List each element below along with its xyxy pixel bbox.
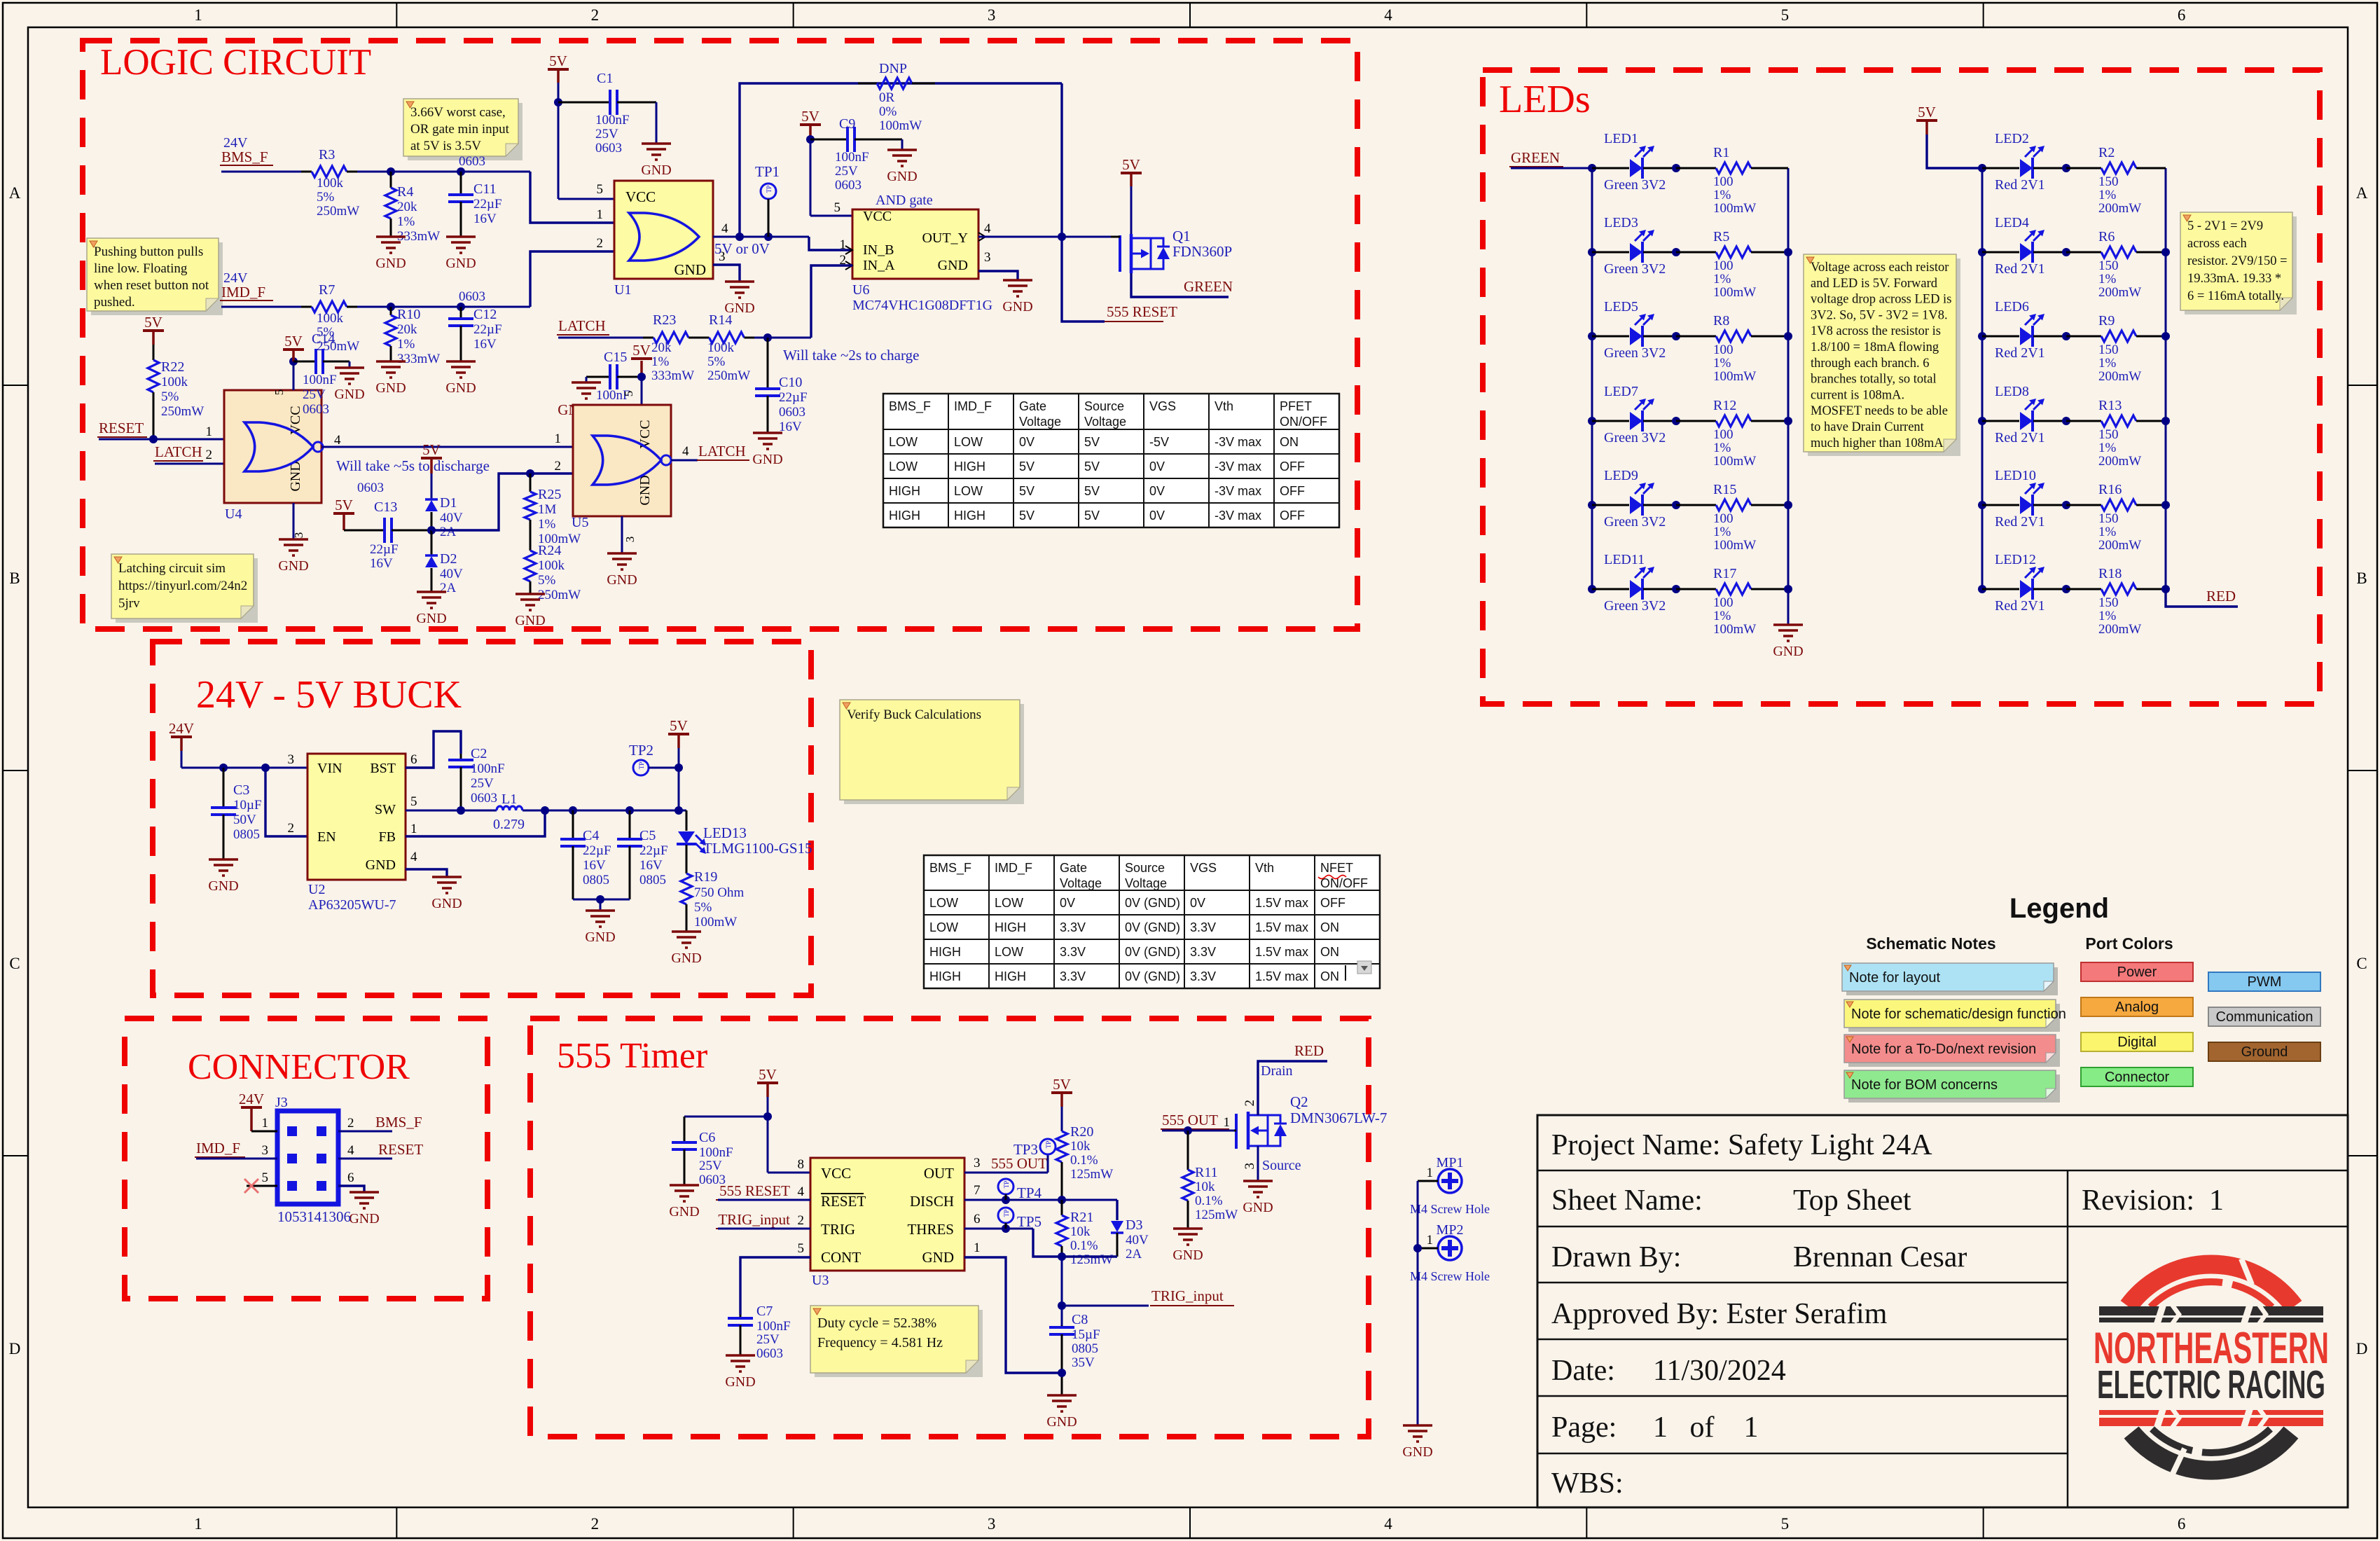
svg-text:333mW: 333mW xyxy=(651,368,694,383)
capacitor C10 xyxy=(767,338,769,389)
svg-text:https://tinyurl.com/24n2: https://tinyurl.com/24n2 xyxy=(118,579,247,593)
resistor R20 xyxy=(1061,1131,1063,1133)
svg-text:Voltage: Voltage xyxy=(1084,415,1126,429)
svg-text:10k: 10k xyxy=(1070,1224,1091,1239)
Northeastern Electric Racing logo xyxy=(2094,1259,2329,1474)
svg-text:AND gate: AND gate xyxy=(876,193,933,208)
svg-text:0603: 0603 xyxy=(303,402,329,417)
svg-text:4: 4 xyxy=(1384,1515,1392,1533)
svg-text:0603: 0603 xyxy=(459,154,485,169)
svg-text:R24: R24 xyxy=(538,543,561,558)
svg-text:5V: 5V xyxy=(759,1066,777,1083)
note sticky duty cycle xyxy=(815,1310,983,1377)
svg-text:200mW: 200mW xyxy=(2098,369,2141,384)
svg-text:100: 100 xyxy=(1713,595,1734,610)
svg-text:LOW: LOW xyxy=(954,435,983,449)
svg-text:24V: 24V xyxy=(169,720,194,737)
svg-text:25V: 25V xyxy=(756,1332,780,1347)
svg-text:125mW: 125mW xyxy=(1070,1167,1113,1182)
LED5 green xyxy=(1588,332,1596,340)
svg-text:0805: 0805 xyxy=(1072,1341,1098,1356)
svg-text:Will take ~2s to charge: Will take ~2s to charge xyxy=(783,347,919,364)
resistor R16 xyxy=(2066,504,2101,506)
wire U1 output xyxy=(713,236,809,238)
svg-text:25V: 25V xyxy=(699,1159,722,1173)
svg-text:16V: 16V xyxy=(473,337,497,352)
svg-text:Red 2V1: Red 2V1 xyxy=(1995,261,2045,277)
svg-text:CONT: CONT xyxy=(821,1249,861,1266)
svg-text:EN: EN xyxy=(317,829,336,845)
svg-text:20k: 20k xyxy=(397,200,417,214)
svg-text:HIGH: HIGH xyxy=(995,920,1026,934)
resistor R24 xyxy=(530,539,532,551)
svg-text:TP3: TP3 xyxy=(1013,1141,1038,1158)
resistor R9 xyxy=(2066,336,2101,338)
section box LEDs xyxy=(1483,70,2320,704)
svg-text:TP: TP xyxy=(1003,1181,1010,1189)
svg-text:Top Sheet: Top Sheet xyxy=(1793,1184,1911,1217)
svg-text:5V: 5V xyxy=(284,333,303,350)
wire IMD_F row xyxy=(221,306,301,308)
svg-text:Legend: Legend xyxy=(2009,893,2109,924)
svg-text:0603: 0603 xyxy=(756,1346,783,1361)
svg-text:5V: 5V xyxy=(1918,104,1936,120)
legend note bom xyxy=(1848,1074,2060,1103)
ground below U4 xyxy=(279,538,308,541)
svg-text:U5: U5 xyxy=(572,515,588,530)
svg-text:35V: 35V xyxy=(1072,1355,1095,1370)
svg-text:C15: C15 xyxy=(604,350,627,365)
LED8 red xyxy=(1978,417,1986,425)
svg-text:LED5: LED5 xyxy=(1604,299,1638,315)
svg-text:LATCH: LATCH xyxy=(698,443,746,459)
legend note todo xyxy=(1848,1039,2060,1067)
NOR gate symbol U4 xyxy=(244,422,313,471)
svg-text:50V: 50V xyxy=(233,813,256,827)
svg-text:100mW: 100mW xyxy=(1713,538,1756,553)
wire C4 C5 to GND xyxy=(573,899,630,901)
truth table PFET xyxy=(883,394,1339,527)
frame column ticks xyxy=(396,3,397,27)
svg-text:0603: 0603 xyxy=(459,289,485,304)
ground below C8 xyxy=(1047,1394,1077,1397)
svg-text:1%: 1% xyxy=(651,354,670,369)
diode D1 xyxy=(425,500,438,511)
svg-text:Power: Power xyxy=(2117,965,2157,980)
svg-text:125mW: 125mW xyxy=(1070,1252,1113,1267)
svg-text:ON/OFF: ON/OFF xyxy=(1320,876,1368,890)
wire C9 to GND xyxy=(901,139,904,150)
svg-text:4: 4 xyxy=(682,444,689,459)
svg-text:5V: 5V xyxy=(144,314,162,331)
svg-text:0V: 0V xyxy=(1149,459,1165,474)
title block divider xyxy=(2067,1170,2069,1507)
resistor R23 xyxy=(643,337,653,339)
svg-text:BMS_F: BMS_F xyxy=(221,148,268,165)
svg-text:GND: GND xyxy=(375,256,406,271)
resistor R11 xyxy=(1187,1131,1189,1170)
svg-text:ON: ON xyxy=(1320,969,1339,983)
body diode Q1 xyxy=(1157,246,1170,248)
ground below J3 pin6 xyxy=(350,1191,379,1194)
resistor R10 vertical xyxy=(390,307,392,315)
svg-text:200mW: 200mW xyxy=(2098,538,2141,553)
svg-text:25V: 25V xyxy=(835,164,858,179)
svg-text:25V: 25V xyxy=(471,776,494,791)
port color PWM xyxy=(2208,972,2320,991)
resistor R4 vertical xyxy=(390,172,392,188)
transistor Q2 DMN3067LW-7 NFET xyxy=(1235,1114,1238,1149)
svg-text:1: 1 xyxy=(262,1116,269,1131)
svg-text:IMD_F: IMD_F xyxy=(221,284,265,300)
svg-text:555 Timer: 555 Timer xyxy=(557,1036,707,1076)
resistor R19 xyxy=(686,872,688,873)
wire U5 pin3 GND xyxy=(621,516,623,553)
logo bottom arcs xyxy=(2131,1432,2291,1470)
svg-text:1%: 1% xyxy=(1713,188,1731,202)
svg-text:D: D xyxy=(2356,1340,2368,1357)
svg-text:LEDs: LEDs xyxy=(1499,78,1591,121)
svg-text:100mW: 100mW xyxy=(879,118,922,133)
svg-text:1%: 1% xyxy=(1713,356,1731,371)
capacitor C2 xyxy=(460,754,462,760)
svg-text:0V (GND): 0V (GND) xyxy=(1125,969,1180,983)
svg-text:1%: 1% xyxy=(397,214,415,229)
svg-text:4: 4 xyxy=(798,1184,805,1199)
svg-text:R10: R10 xyxy=(397,307,420,322)
svg-text:GND: GND xyxy=(416,611,446,626)
svg-text:6 = 116mA totally.: 6 = 116mA totally. xyxy=(2187,289,2284,303)
svg-text:LATCH: LATCH xyxy=(155,443,202,460)
note sticky 3.66V worst case xyxy=(408,103,523,160)
svg-text:TP: TP xyxy=(638,762,645,770)
svg-text:ELECTRIC RACING: ELECTRIC RACING xyxy=(2097,1363,2325,1408)
wire SW row xyxy=(406,810,497,812)
connector pin pad xyxy=(287,1154,297,1163)
svg-text:GND: GND xyxy=(1402,1444,1432,1460)
svg-text:100mW: 100mW xyxy=(694,915,737,930)
node D1/D2/C13 xyxy=(427,526,436,534)
svg-text:U1: U1 xyxy=(614,282,631,298)
LED7 green xyxy=(1588,417,1596,425)
svg-text:16V: 16V xyxy=(639,858,663,873)
svg-text:C7: C7 xyxy=(756,1304,773,1319)
wire C15 node to U5 VCC xyxy=(641,377,643,405)
svg-text:through each branch. 6: through each branch. 6 xyxy=(1811,357,1930,371)
svg-text:24V: 24V xyxy=(239,1091,264,1107)
test point TP4 xyxy=(998,1179,1013,1194)
svg-text:Green 3V2: Green 3V2 xyxy=(1604,430,1666,445)
svg-text:Green 3V2: Green 3V2 xyxy=(1604,598,1666,614)
legend note layout xyxy=(1846,967,2058,995)
svg-text:GND: GND xyxy=(887,169,917,184)
svg-text:100mW: 100mW xyxy=(1713,369,1756,384)
capacitor C3 xyxy=(223,768,225,808)
svg-text:Latching circuit sim: Latching circuit sim xyxy=(118,561,226,576)
resistor R5 xyxy=(1676,251,1716,254)
svg-text:5: 5 xyxy=(798,1241,805,1256)
wire U3 GND pin1 xyxy=(964,1257,1062,1373)
svg-text:U3: U3 xyxy=(812,1273,829,1288)
svg-text:R23: R23 xyxy=(653,312,676,328)
capacitor C5 xyxy=(629,810,631,839)
svg-text:Green 3V2: Green 3V2 xyxy=(1604,261,1666,277)
svg-text:100nF: 100nF xyxy=(471,761,505,776)
wire THRES pin6 xyxy=(964,1228,1033,1230)
logo black chevron band xyxy=(2099,1306,2323,1315)
svg-text:20k: 20k xyxy=(651,340,672,355)
capacitor C12 xyxy=(460,307,462,319)
wire C1 left xyxy=(558,102,601,104)
svg-text:22µF: 22µF xyxy=(583,843,611,858)
svg-text:Voltage: Voltage xyxy=(1125,876,1167,890)
svg-text:line low. Floating: line low. Floating xyxy=(94,261,188,276)
svg-text:GND: GND xyxy=(366,857,396,873)
text caret artifact xyxy=(1345,965,1346,981)
LED1 green xyxy=(1592,167,1629,170)
svg-text:Project Name: Safety Light 24A: Project Name: Safety Light 24A xyxy=(1551,1129,1932,1161)
ground below R10 xyxy=(376,360,406,363)
svg-text:FB: FB xyxy=(379,829,396,845)
svg-text:NFET: NFET xyxy=(1320,861,1353,875)
svg-text:1%: 1% xyxy=(2098,609,2117,623)
svg-text:3: 3 xyxy=(984,250,991,265)
svg-text:Source: Source xyxy=(1262,1158,1301,1173)
svg-text:C4: C4 xyxy=(583,828,599,843)
svg-text:IMD_F: IMD_F xyxy=(196,1140,240,1156)
wire DNP top bypass xyxy=(740,83,1062,237)
U6 input pin arrows xyxy=(845,246,852,254)
ground below U2 pin4 xyxy=(432,876,462,878)
ground right of C14 xyxy=(349,361,351,368)
svg-text:Drawn By:: Drawn By: xyxy=(1551,1241,1681,1273)
svg-text:LED6: LED6 xyxy=(1995,299,2029,315)
svg-text:0.279: 0.279 xyxy=(493,817,525,832)
svg-text:Voltage: Voltage xyxy=(1019,415,1061,429)
svg-text:C11: C11 xyxy=(473,181,497,197)
svg-text:1%: 1% xyxy=(2098,441,2117,455)
svg-text:Approved By: Ester Serafim: Approved By: Ester Serafim xyxy=(1551,1298,1888,1330)
svg-text:resistor. 2V9/150 =: resistor. 2V9/150 = xyxy=(2187,254,2288,268)
svg-text:R4: R4 xyxy=(397,184,413,200)
svg-text:C10: C10 xyxy=(779,375,802,390)
svg-text:Digital: Digital xyxy=(2117,1035,2157,1050)
svg-text:SW: SW xyxy=(375,802,396,817)
svg-text:0%: 0% xyxy=(879,104,897,119)
capacitor C7 xyxy=(740,1315,742,1318)
svg-text:LED11: LED11 xyxy=(1604,552,1645,567)
svg-text:5jrv: 5jrv xyxy=(118,596,140,611)
svg-text:R16: R16 xyxy=(2098,482,2122,497)
svg-text:LED9: LED9 xyxy=(1604,468,1638,483)
svg-text:TLMG1100-GS15: TLMG1100-GS15 xyxy=(703,840,812,857)
svg-text:16V: 16V xyxy=(583,858,606,873)
svg-text:100nF: 100nF xyxy=(303,373,337,387)
svg-text:R9: R9 xyxy=(2098,313,2115,329)
ground below green bank xyxy=(1773,623,1803,626)
svg-text:TRIG_input: TRIG_input xyxy=(718,1211,790,1228)
svg-text:5V: 5V xyxy=(801,108,819,125)
svg-text:GND: GND xyxy=(1002,299,1032,315)
svg-text:RED: RED xyxy=(2206,588,2236,604)
svg-text:0V: 0V xyxy=(1060,896,1075,910)
svg-text:10k: 10k xyxy=(1070,1139,1091,1154)
svg-text:C14: C14 xyxy=(312,331,335,347)
wire BST to C2 xyxy=(406,731,461,768)
wire U1 out to U6 IN_B xyxy=(809,237,852,250)
svg-text:LOW: LOW xyxy=(995,945,1023,959)
svg-text:LED1: LED1 xyxy=(1604,131,1638,146)
svg-text:LOW: LOW xyxy=(889,459,918,474)
red LED bank bus right xyxy=(2165,168,2167,589)
green LED bank bus right xyxy=(1787,168,1790,589)
svg-text:150: 150 xyxy=(2098,595,2119,610)
svg-text:GND: GND xyxy=(445,380,476,396)
svg-text:HIGH: HIGH xyxy=(954,459,985,474)
svg-text:GND: GND xyxy=(637,475,653,505)
svg-text:R6: R6 xyxy=(2098,229,2115,244)
svg-text:250mW: 250mW xyxy=(161,404,204,419)
svg-text:Revision: 1: Revision: 1 xyxy=(2082,1184,2224,1217)
svg-text:1%: 1% xyxy=(1713,441,1731,455)
connector pin pad xyxy=(287,1181,297,1191)
wire VCC pin8 xyxy=(768,1172,810,1174)
wire EN xyxy=(265,768,307,836)
svg-text:LED4: LED4 xyxy=(1995,215,2029,230)
svg-text:Date:: Date: xyxy=(1551,1355,1615,1387)
svg-text:1%: 1% xyxy=(1713,525,1731,539)
svg-text:0.1%: 0.1% xyxy=(1070,1238,1098,1253)
svg-text:100: 100 xyxy=(1713,427,1734,442)
svg-text:3.3V: 3.3V xyxy=(1060,969,1086,983)
svg-text:4: 4 xyxy=(347,1143,354,1158)
wire to C6 xyxy=(684,1116,768,1118)
svg-text:DNP: DNP xyxy=(879,61,907,76)
svg-text:branches totally, so total: branches totally, so total xyxy=(1811,373,1937,387)
svg-text:B: B xyxy=(9,569,20,587)
svg-text:TP: TP xyxy=(1045,1141,1052,1149)
svg-text:100k: 100k xyxy=(538,558,565,573)
svg-text:5%: 5% xyxy=(538,573,556,588)
ground below Q2 xyxy=(1243,1180,1273,1182)
svg-text:TRIG: TRIG xyxy=(821,1221,855,1238)
svg-text:0V: 0V xyxy=(1149,484,1165,498)
svg-text:BST: BST xyxy=(370,761,396,776)
section box CONNECTOR xyxy=(125,1018,487,1299)
svg-text:A: A xyxy=(9,184,21,202)
svg-text:Red 2V1: Red 2V1 xyxy=(1995,598,2045,614)
test point TP1 xyxy=(761,184,776,199)
NOR gate symbol U5 xyxy=(593,436,661,485)
svg-text:Frequency = 4.581 Hz: Frequency = 4.581 Hz xyxy=(817,1335,943,1350)
svg-text:GREEN: GREEN xyxy=(1511,149,1560,166)
svg-text:GND: GND xyxy=(938,258,968,273)
svg-text:5V: 5V xyxy=(1084,484,1100,498)
svg-text:C3: C3 xyxy=(233,782,249,798)
LED2 red xyxy=(1982,167,2019,170)
title block border xyxy=(1537,1115,2348,1507)
svg-text:IMD_F: IMD_F xyxy=(995,861,1032,876)
connector pin pad xyxy=(317,1154,326,1163)
test point TP5 xyxy=(998,1208,1013,1223)
frame row ticks xyxy=(3,385,28,386)
truth table NFET xyxy=(924,855,1380,988)
svg-text:TP: TP xyxy=(766,186,773,193)
svg-text:IMD_F: IMD_F xyxy=(954,399,992,414)
note sticky voltage across resistor xyxy=(1808,258,1960,456)
svg-text:C: C xyxy=(9,955,20,972)
svg-text:GND: GND xyxy=(431,896,462,911)
resistor R18 xyxy=(2066,588,2101,590)
svg-text:MOSFET needs to be able: MOSFET needs to be able xyxy=(1811,404,1948,418)
svg-text:100: 100 xyxy=(1713,511,1734,526)
svg-text:TP: TP xyxy=(1003,1210,1010,1217)
svg-text:0805: 0805 xyxy=(233,827,260,842)
svg-text:100nF: 100nF xyxy=(699,1145,733,1160)
ground below U6 xyxy=(1003,279,1032,282)
svg-text:5: 5 xyxy=(1781,6,1790,24)
svg-text:GND: GND xyxy=(1773,644,1803,659)
wire BMS_F row xyxy=(221,171,301,173)
svg-text:Red 2V1: Red 2V1 xyxy=(1995,514,2045,530)
svg-text:HIGH: HIGH xyxy=(889,484,920,498)
svg-text:Red 2V1: Red 2V1 xyxy=(1995,345,2045,361)
svg-text:LOW: LOW xyxy=(995,896,1023,910)
svg-text:11/30/2024: 11/30/2024 xyxy=(1653,1355,1786,1387)
svg-text:2: 2 xyxy=(555,459,562,474)
svg-text:1M: 1M xyxy=(538,502,557,517)
svg-text:150: 150 xyxy=(2098,174,2119,189)
svg-text:Q1: Q1 xyxy=(1172,228,1191,244)
wire U1 pin3 GND xyxy=(713,265,740,282)
svg-text:CONNECTOR: CONNECTOR xyxy=(188,1047,410,1087)
svg-text:1: 1 xyxy=(410,822,417,836)
svg-text:0805: 0805 xyxy=(639,873,666,887)
ground below U5 xyxy=(607,552,637,555)
svg-text:TP4: TP4 xyxy=(1017,1184,1042,1201)
svg-text:2: 2 xyxy=(591,1515,600,1533)
svg-text:150: 150 xyxy=(2098,258,2119,273)
svg-text:1: 1 xyxy=(206,424,213,439)
svg-text:HIGH: HIGH xyxy=(889,509,920,523)
inductor L1 xyxy=(497,806,523,810)
wire R7 to junctions xyxy=(357,306,530,308)
svg-text:GREEN: GREEN xyxy=(1184,278,1233,295)
svg-text:22µF: 22µF xyxy=(639,843,668,858)
capacitor C11 xyxy=(460,172,462,195)
ground below C12 xyxy=(446,360,476,363)
svg-text:3.3V: 3.3V xyxy=(1060,920,1086,934)
mounting hole MP1 xyxy=(1438,1169,1462,1193)
LED13 xyxy=(686,810,688,831)
diode D3 xyxy=(1116,1200,1118,1220)
svg-text:3: 3 xyxy=(988,1515,996,1533)
capacitor C13 xyxy=(344,530,385,532)
svg-text:5%: 5% xyxy=(317,190,335,205)
svg-text:100k: 100k xyxy=(317,176,344,191)
wire FB xyxy=(406,810,545,836)
svg-text:LOGIC CIRCUIT: LOGIC CIRCUIT xyxy=(100,42,371,83)
svg-text:1.5V max: 1.5V max xyxy=(1255,920,1308,934)
svg-text:Voltage across each reistor: Voltage across each reistor xyxy=(1811,261,1949,275)
svg-text:TP5: TP5 xyxy=(1017,1213,1042,1230)
svg-text:0805: 0805 xyxy=(583,873,609,887)
svg-text:1 of 1: 1 of 1 xyxy=(1653,1411,1759,1444)
svg-text:Note for a To-Do/next revision: Note for a To-Do/next revision xyxy=(1851,1042,2036,1057)
svg-text:RESET: RESET xyxy=(821,1193,866,1210)
svg-text:Duty cycle = 52.38%: Duty cycle = 52.38% xyxy=(817,1315,936,1331)
svg-text:ON: ON xyxy=(1320,920,1339,934)
